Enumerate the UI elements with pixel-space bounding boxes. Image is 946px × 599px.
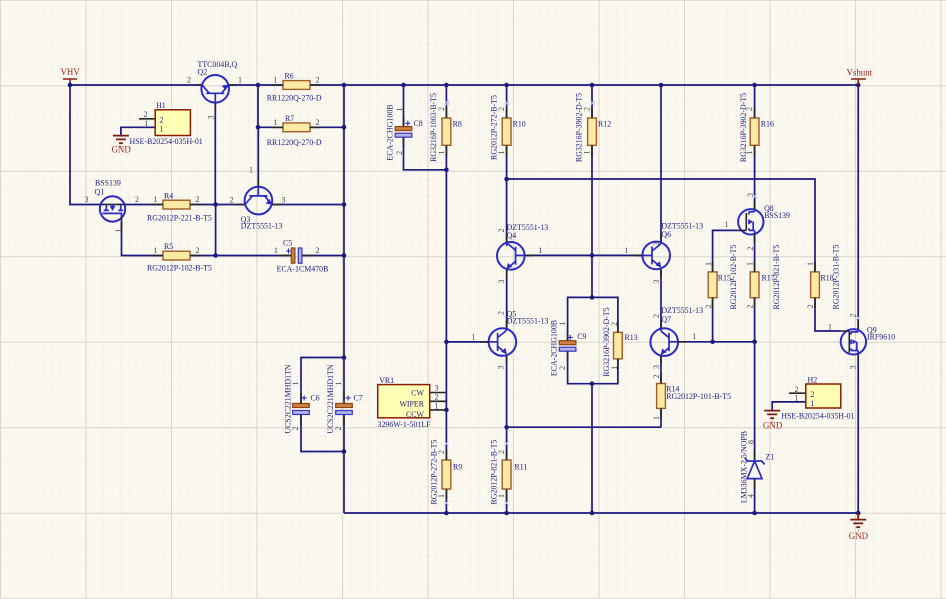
junction R8 top <box>444 83 449 88</box>
resistor R15 <box>704 245 738 310</box>
svg-text:C6: C6 <box>311 393 320 402</box>
svg-text:1: 1 <box>497 151 506 155</box>
svg-text:2: 2 <box>187 76 191 85</box>
svg-text:R13: R13 <box>625 333 638 342</box>
svg-text:2: 2 <box>806 305 815 309</box>
wire C5 right to bus B <box>302 255 344 257</box>
wire Q5 base <box>446 341 488 343</box>
wire rail2 R10 to R18 top <box>507 179 815 272</box>
wire bus B below C7 to bottom rail <box>343 415 345 514</box>
wire R8 bottom long column down <box>445 145 447 460</box>
svg-text:2: 2 <box>811 390 815 399</box>
svg-text:1: 1 <box>745 151 754 155</box>
svg-text:1: 1 <box>652 416 661 420</box>
svg-text:1: 1 <box>154 195 158 204</box>
capacitor C5 ECA-1CM470B <box>274 239 328 274</box>
wire Q2 base down to node C <box>214 103 216 205</box>
svg-text:Q4: Q4 <box>507 231 517 240</box>
wire R9 bottom to rail <box>445 489 447 513</box>
wire node C down to R5 row <box>215 205 217 256</box>
header H2 <box>781 376 854 421</box>
svg-text:R16: R16 <box>761 119 774 128</box>
svg-text:2: 2 <box>196 195 200 204</box>
svg-text:R9: R9 <box>453 463 462 472</box>
wire Q2 collector to node A <box>229 84 283 86</box>
svg-text:Z1: Z1 <box>766 453 775 462</box>
wire top rail left VHV to Q2 base <box>70 84 201 86</box>
svg-text:1: 1 <box>582 151 591 155</box>
svg-text:1: 1 <box>806 262 815 266</box>
wire R11 bottom to rail <box>506 489 508 513</box>
svg-text:1: 1 <box>625 246 629 255</box>
resistor R17 <box>746 245 781 310</box>
resistor R13 <box>602 307 638 376</box>
resistor R11 <box>490 440 528 505</box>
junction R7 right <box>342 125 347 130</box>
svg-text:R12: R12 <box>598 119 611 128</box>
power port VHV <box>61 67 81 85</box>
header H1 <box>130 101 203 146</box>
svg-text:BSS139: BSS139 <box>764 211 790 220</box>
wire Q6 base <box>592 254 642 256</box>
svg-text:1: 1 <box>160 125 164 134</box>
svg-text:R6: R6 <box>285 72 294 81</box>
wire bottom rail <box>344 512 858 514</box>
wire R6 right to node B <box>310 84 344 86</box>
wire node F down to C9 R13 split <box>591 255 593 297</box>
svg-text:UCS2C221MHD1TN: UCS2C221MHD1TN <box>284 364 293 434</box>
svg-text:BSS139: BSS139 <box>95 178 121 187</box>
transistor Q8 BSS139 <box>725 193 791 251</box>
wire R12 column to bottom rail <box>591 384 593 513</box>
svg-text:2: 2 <box>437 107 446 111</box>
junction R12 rail <box>590 511 595 516</box>
wire Q1 source to R4 <box>125 204 163 206</box>
resistor R8 <box>429 93 462 162</box>
svg-text:3: 3 <box>652 280 661 284</box>
resistor R12 <box>575 93 612 162</box>
wire R15 bottom <box>712 298 714 342</box>
wire Q7 base to R15 bottom <box>678 341 713 343</box>
svg-text:2: 2 <box>316 76 320 85</box>
junction Q6 collector top <box>659 83 664 88</box>
wire R11 top <box>506 427 508 460</box>
svg-text:3296W-1-501LF: 3296W-1-501LF <box>378 420 432 429</box>
svg-text:2: 2 <box>652 375 661 379</box>
junction Z1 rail <box>752 511 757 516</box>
svg-text:3: 3 <box>206 116 215 120</box>
svg-text:RG2012P-221-B-T5: RG2012P-221-B-T5 <box>147 214 212 223</box>
ground symbol bottom right <box>849 513 869 541</box>
transistor Q3 DZT5551-13 <box>230 166 286 231</box>
svg-text:DZT5551-13: DZT5551-13 <box>661 306 703 315</box>
svg-text:ECA-2CHG100B: ECA-2CHG100B <box>385 104 394 160</box>
svg-text:2: 2 <box>316 246 320 255</box>
component pin stubs <box>122 85 859 500</box>
svg-text:2: 2 <box>558 366 567 370</box>
junction R15 bottom <box>710 340 715 345</box>
junction Vshunt <box>856 83 861 88</box>
svg-text:C8: C8 <box>414 119 423 128</box>
zener diode Z1 LM336MX-2.5/NOPB <box>739 431 774 503</box>
wire top rail node B to Vshunt <box>344 84 858 86</box>
wire R13 bottom <box>592 359 618 384</box>
junction R11 rail <box>504 511 509 516</box>
svg-text:1: 1 <box>274 76 278 85</box>
svg-text:HSE-B20254-035H-01: HSE-B20254-035H-01 <box>130 137 203 146</box>
svg-text:RG2012P-102-B-T5: RG2012P-102-B-T5 <box>147 264 212 273</box>
svg-text:2: 2 <box>496 311 505 315</box>
wire Q4 collector to R12 column <box>525 254 592 256</box>
wire R16 top <box>754 85 756 118</box>
svg-text:2: 2 <box>291 427 300 431</box>
svg-text:2: 2 <box>746 247 755 251</box>
svg-text:1: 1 <box>811 399 815 408</box>
wire Q8 source to R17 top <box>754 234 756 272</box>
svg-text:RR1220Q-270-D: RR1220Q-270-D <box>267 138 322 147</box>
wire Q5 emitter down to row E <box>506 355 508 427</box>
svg-text:RG2012P-101-B-T5: RG2012P-101-B-T5 <box>666 392 731 401</box>
wire C9 branch <box>568 297 592 340</box>
junction VR1 pin1 <box>444 408 449 413</box>
svg-text:2: 2 <box>745 107 754 111</box>
resistor R7 <box>267 114 322 147</box>
svg-text:GND: GND <box>112 145 132 155</box>
wire R10 bottom to Q4 base <box>506 145 508 242</box>
svg-text:2: 2 <box>135 195 139 204</box>
wire Q7 emitter to R14 <box>660 355 662 383</box>
svg-text:2: 2 <box>395 151 404 155</box>
svg-text:C7: C7 <box>354 393 363 402</box>
wire Q6 emitter to Q7 collector <box>660 269 662 329</box>
wire Q4 emitter to Q5 collector <box>506 269 508 329</box>
svg-text:1: 1 <box>828 322 832 331</box>
svg-text:CCW: CCW <box>406 410 425 419</box>
wire Vshunt column to Q9 source <box>857 85 859 329</box>
svg-text:4: 4 <box>747 494 756 498</box>
resistor R18 <box>806 245 840 310</box>
junction row E left <box>504 425 509 430</box>
junction C9 R13 bottom <box>590 381 595 386</box>
junction node A top <box>256 83 261 88</box>
svg-text:2: 2 <box>497 450 506 454</box>
svg-text:1: 1 <box>437 494 446 498</box>
capacitor C8 ECA-2CHG100B <box>385 104 422 160</box>
svg-text:2: 2 <box>582 107 591 111</box>
svg-text:2: 2 <box>497 107 506 111</box>
svg-text:2: 2 <box>334 427 343 431</box>
junction C8 top <box>401 83 406 88</box>
transistor Q5 DZT5551-13 <box>472 310 549 370</box>
svg-text:1: 1 <box>291 382 300 386</box>
svg-text:RG2012P-821-B-T5: RG2012P-821-B-T5 <box>772 245 781 310</box>
svg-text:1: 1 <box>472 332 476 341</box>
junction R17 bottom <box>752 340 757 345</box>
svg-text:3: 3 <box>497 280 506 284</box>
svg-text:WIPER: WIPER <box>399 399 424 408</box>
svg-text:R10: R10 <box>513 119 526 128</box>
svg-text:2: 2 <box>437 450 446 454</box>
wire R17 node down to Z1 <box>754 342 756 460</box>
junction GND rail end <box>856 511 861 516</box>
capacitor C9 ECA-2CHG100B <box>549 320 586 376</box>
wire R18 bottom to Q9 gate <box>815 298 841 331</box>
svg-text:R8: R8 <box>453 119 462 128</box>
svg-text:3: 3 <box>652 365 661 369</box>
wire C8 top lead <box>403 85 405 127</box>
svg-text:RG2012P-331-B-T5: RG2012P-331-B-T5 <box>831 245 840 310</box>
svg-text:GND: GND <box>763 420 783 430</box>
resistor R10 <box>489 95 525 160</box>
transistor Q9 IRF9610 <box>828 314 895 370</box>
junction C8 R8 bottom <box>444 168 449 173</box>
svg-text:1: 1 <box>249 166 253 175</box>
svg-text:RG2012P-102-B-T5: RG2012P-102-B-T5 <box>729 245 738 310</box>
svg-text:H2: H2 <box>808 376 818 385</box>
wire R17 bottom <box>754 298 756 342</box>
svg-text:ECA-2CHG100B: ECA-2CHG100B <box>549 320 558 376</box>
svg-text:R7: R7 <box>285 114 294 123</box>
junction R10 rail2 <box>504 177 509 182</box>
junction C9 R13 top <box>590 295 595 300</box>
svg-text:VR1: VR1 <box>379 376 394 385</box>
resistor R6 <box>267 72 322 103</box>
transistor Q2 TTC004B,Q <box>187 60 242 120</box>
wire node D to C5 <box>216 255 291 257</box>
wire node A down to R7 left <box>258 85 283 127</box>
svg-text:1: 1 <box>497 494 506 498</box>
svg-text:H1: H1 <box>156 101 166 110</box>
svg-text:1: 1 <box>334 382 343 386</box>
svg-text:GND: GND <box>849 531 869 541</box>
svg-text:2: 2 <box>144 110 148 119</box>
junction R16 top <box>752 83 757 88</box>
wire R4 to node C <box>190 204 216 206</box>
wire R13 branch <box>592 297 618 332</box>
svg-text:8: 8 <box>747 440 756 444</box>
wire R12 bottom to Q6 base node <box>591 145 593 255</box>
wire Q8 gate to R15 top <box>713 230 739 272</box>
resistor R4 <box>147 192 212 223</box>
wire Q6 collector up to rail <box>660 85 662 242</box>
wire R14 bottom lead <box>660 408 662 427</box>
junction C6 top <box>342 355 347 360</box>
svg-text:RG2012P-272-B-T5: RG2012P-272-B-T5 <box>489 95 498 160</box>
junction node B top <box>342 83 347 88</box>
svg-text:1: 1 <box>274 118 278 127</box>
wire Q3 emitter to bus B <box>272 204 344 206</box>
junction Q4 collector node F <box>590 253 595 258</box>
svg-text:2: 2 <box>196 246 200 255</box>
potentiometer VR1 <box>378 376 447 429</box>
svg-text:2: 2 <box>497 229 506 233</box>
junction Q3 emitter bus B <box>342 202 347 207</box>
wire Q1 gate down to R5 <box>122 222 164 256</box>
svg-text:1: 1 <box>795 394 799 403</box>
svg-text:Q7: Q7 <box>661 315 671 324</box>
svg-text:C5: C5 <box>283 239 292 248</box>
svg-text:IRF9610: IRF9610 <box>867 333 895 342</box>
wire R8 column <box>445 85 447 118</box>
junction R12 top <box>590 83 595 88</box>
svg-text:1: 1 <box>145 119 149 128</box>
wire R15 bottom node to R17 bottom node <box>713 341 755 343</box>
wire R5 to node D <box>190 255 216 257</box>
svg-text:2: 2 <box>230 195 234 204</box>
wire R12 top <box>591 85 593 118</box>
svg-text:2: 2 <box>652 242 661 246</box>
svg-text:Q2: Q2 <box>198 67 208 76</box>
wire Z1 bottom to rail <box>754 479 756 513</box>
svg-text:DZT5551-13: DZT5551-13 <box>241 222 283 231</box>
svg-text:2: 2 <box>316 118 320 127</box>
svg-text:1: 1 <box>395 108 404 112</box>
svg-text:CW: CW <box>411 389 424 398</box>
wire C6 branch bottom <box>301 415 344 452</box>
svg-text:3: 3 <box>282 195 286 204</box>
transistor Q6 DZT5551-13 <box>625 222 704 284</box>
wire C8 bottom lead to R8 bottom <box>404 137 447 170</box>
junction R7 left <box>256 125 261 130</box>
resistor R5 <box>147 242 212 272</box>
svg-text:C9: C9 <box>577 332 586 341</box>
svg-text:ECA-1CM470B: ECA-1CM470B <box>277 265 329 274</box>
svg-text:R5: R5 <box>164 242 173 251</box>
svg-text:1: 1 <box>693 332 697 341</box>
wire R7 right up to node B <box>310 126 344 128</box>
junction VHV <box>68 83 73 88</box>
svg-text:R4: R4 <box>164 192 173 201</box>
svg-text:UCS2C221MHD1TN: UCS2C221MHD1TN <box>326 364 335 434</box>
svg-text:2: 2 <box>652 314 661 318</box>
ground symbol H1 <box>112 136 132 155</box>
svg-text:Vshunt: Vshunt <box>847 68 873 78</box>
svg-text:DZT5551-13: DZT5551-13 <box>507 317 549 326</box>
wire Q3 base up to R7 node <box>257 127 259 187</box>
wire VHV bus down left side <box>70 85 100 205</box>
junction C6 bottom <box>342 449 347 454</box>
wire R10 top <box>506 85 508 118</box>
svg-text:1: 1 <box>154 246 158 255</box>
svg-text:1: 1 <box>238 76 242 85</box>
wire bus B vertical <box>343 85 345 400</box>
svg-text:1: 1 <box>435 401 439 410</box>
svg-text:3: 3 <box>496 366 505 370</box>
transistor Q4 DZT5551-13 <box>497 223 548 284</box>
ground symbol H2 <box>763 411 783 431</box>
svg-text:1: 1 <box>437 151 446 155</box>
svg-text:HSE-B20254-035H-01: HSE-B20254-035H-01 <box>781 412 854 421</box>
svg-text:Q6: Q6 <box>661 230 671 239</box>
transistor Q1 BSS139 <box>85 178 140 232</box>
wire C6 branch top <box>301 358 344 404</box>
svg-text:2: 2 <box>795 385 799 394</box>
svg-text:1: 1 <box>746 262 755 266</box>
svg-text:VHV: VHV <box>61 67 81 77</box>
junction R9 rail <box>444 511 449 516</box>
no-ERC marks <box>444 101 860 505</box>
junction C5 right <box>342 253 347 258</box>
svg-text:RR1220Q-270-D: RR1220Q-270-D <box>267 94 322 103</box>
wire H2 pin1 to GND <box>772 402 806 410</box>
wire C9 bottom <box>568 351 592 384</box>
junction node C <box>213 202 218 207</box>
capacitor C7 UCS2C221MHD1TN <box>326 364 363 434</box>
resistor R16 <box>739 93 774 162</box>
svg-text:R11: R11 <box>515 463 528 472</box>
svg-text:1: 1 <box>725 220 729 229</box>
transistor Q7 DZT5551-13 <box>650 306 703 369</box>
svg-text:1: 1 <box>539 246 543 255</box>
svg-text:2: 2 <box>160 115 164 124</box>
wire row E to R14 bottom <box>507 426 661 428</box>
wire node C to Q3 collector <box>216 204 245 206</box>
svg-text:2: 2 <box>746 305 755 309</box>
wire R16 bottom to Q8 drain <box>754 145 756 209</box>
capacitor C6 UCS2C221MHD1TN <box>284 364 320 434</box>
junction R10 top <box>504 83 509 88</box>
svg-text:3: 3 <box>849 366 858 370</box>
svg-text:Q1: Q1 <box>95 188 105 197</box>
wire H1 pin1 to GND <box>121 127 155 135</box>
svg-text:1: 1 <box>558 322 567 326</box>
resistor R9 <box>430 440 463 505</box>
svg-text:1: 1 <box>274 246 278 255</box>
resistor R14 <box>652 375 731 421</box>
power port Vshunt <box>847 68 873 85</box>
svg-text:3: 3 <box>85 195 89 204</box>
junction Q5 base <box>444 340 449 345</box>
svg-text:2: 2 <box>435 392 439 401</box>
junction node D <box>213 253 218 258</box>
svg-text:3: 3 <box>435 383 439 392</box>
wire Q9 drain down to GND rail <box>857 354 859 513</box>
